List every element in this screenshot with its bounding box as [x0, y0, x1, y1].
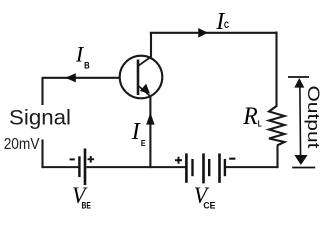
- battery VCE minus sign: [229, 158, 235, 160]
- label R_L: [242, 101, 261, 130]
- svg-text:Output: Output: [304, 86, 323, 149]
- battery VBE: [79, 149, 85, 186]
- resistor RL zigzag: [269, 106, 285, 146]
- svg-text:I: I: [131, 119, 141, 145]
- wire base horizontal: [42, 77, 120, 79]
- battery VCE: [186, 153, 225, 183]
- wire right vertical lower: [276, 146, 278, 169]
- arrow IC: [198, 28, 208, 38]
- svg-text:B: B: [84, 60, 90, 70]
- label Signal: [9, 105, 71, 132]
- svg-text:CE: CE: [203, 201, 215, 211]
- output dimension down arrow: [294, 155, 307, 165]
- wire left vertical lower: [41, 140, 43, 169]
- label I_B: [75, 42, 90, 71]
- svg-text:L: L: [258, 118, 262, 128]
- label V_CE: [194, 183, 216, 211]
- svg-text:R: R: [242, 101, 258, 130]
- arrow IB: [65, 73, 76, 82]
- wire right vertical upper: [275, 32, 277, 108]
- wire bottom right segment: [226, 166, 278, 168]
- wire top horizontal: [150, 32, 278, 34]
- battery VBE minus sign: [70, 158, 75, 160]
- transistor Q1: [120, 56, 163, 99]
- battery VCE plus sign: [175, 157, 182, 164]
- svg-text:BE: BE: [82, 200, 91, 210]
- label I_C: [215, 9, 229, 35]
- label I_E: [131, 119, 146, 148]
- output dimension top tick: [288, 76, 309, 78]
- battery VBE plus sign: [88, 156, 95, 163]
- wire bottom left segment: [42, 166, 79, 168]
- wire collector vertical: [150, 33, 152, 57]
- wire emitter vertical: [149, 96, 151, 168]
- output dimension shaft: [299, 80, 302, 160]
- svg-text:20mV: 20mV: [4, 136, 40, 153]
- arrow IE: [146, 113, 154, 125]
- svg-text:E: E: [141, 138, 146, 148]
- label 20mV: [4, 136, 40, 153]
- wire bottom middle segment: [87, 166, 186, 168]
- wire left vertical upper: [41, 78, 43, 105]
- label V_BE: [72, 183, 91, 211]
- label Output: [304, 86, 323, 149]
- svg-text:C: C: [224, 20, 229, 31]
- output dimension up arrow: [294, 78, 304, 88]
- output dimension bottom tick: [292, 167, 315, 169]
- svg-text:Signal: Signal: [9, 105, 71, 129]
